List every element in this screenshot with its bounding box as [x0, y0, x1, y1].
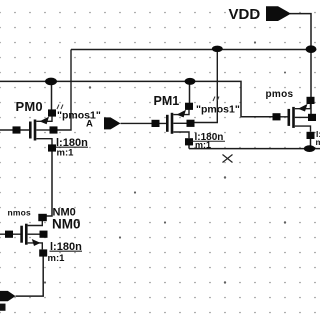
- pin A: [104, 117, 121, 129]
- junction on top rail at PM1 bulk: [212, 46, 223, 52]
- transistor NM0: [5, 214, 48, 257]
- wire NM0 gate to left edge: [0, 233, 21, 235]
- svg-text:"pmos1": "pmos1": [57, 110, 101, 122]
- wire source rail to pmos gate: [0, 81, 273, 116]
- junction net X at pmos drain: [304, 145, 315, 152]
- label X: [223, 155, 233, 163]
- svg-text:VDD: VDD: [229, 6, 261, 23]
- wire VDD vertical to pmos source and bulk: [310, 49, 312, 117]
- svg-text:A: A: [86, 119, 93, 130]
- svg-text:PM0: PM0: [16, 99, 43, 114]
- wire PM0 drain to NM0 drain: [42, 148, 52, 221]
- wire net X: [189, 142, 320, 149]
- svg-text:m:1: m:1: [57, 148, 75, 159]
- svg-text:pmos: pmos: [266, 89, 294, 100]
- tick marks above PM1 label: [213, 97, 219, 102]
- wire PM0 gate to left edge: [0, 129, 30, 131]
- wire PM0 source drop: [51, 81, 53, 113]
- wire NM0 source to output pin: [16, 253, 44, 296]
- wire PM0 bulk to top rail: [54, 50, 72, 131]
- wire bulk rail (top): [71, 49, 311, 51]
- transistor pmos (right): [273, 97, 317, 139]
- pin VDD: [266, 6, 291, 21]
- svg-text:m:: m:: [316, 137, 320, 147]
- pin output (bottom left): [0, 291, 16, 301]
- svg-text:"pmos1": "pmos1": [196, 104, 240, 116]
- svg-text:m:1: m:1: [48, 253, 66, 264]
- tick after NM0: [78, 220, 80, 224]
- pin stub bottom left corner: [0, 304, 6, 311]
- junction on source rail at PM1: [185, 78, 196, 85]
- wire pin A to PM1 gate: [121, 122, 167, 124]
- svg-text:NM0: NM0: [52, 217, 81, 232]
- wire VDD pin to vertical: [290, 14, 311, 49]
- wire PM1 source drop: [189, 81, 191, 106]
- tick marks above PM0 label: [57, 105, 63, 110]
- wire pmos drain to net X: [310, 135, 312, 148]
- svg-text:nmos: nmos: [8, 207, 32, 217]
- junction on source rail at PM0: [45, 78, 57, 86]
- transistor PM1: [152, 103, 195, 146]
- junction top rail at VDD: [306, 45, 317, 53]
- svg-text:m:1: m:1: [195, 140, 211, 150]
- wire PM1 bulk to top rail: [191, 49, 218, 123]
- svg-text:PM1: PM1: [154, 94, 180, 108]
- transistor PM0: [13, 109, 58, 151]
